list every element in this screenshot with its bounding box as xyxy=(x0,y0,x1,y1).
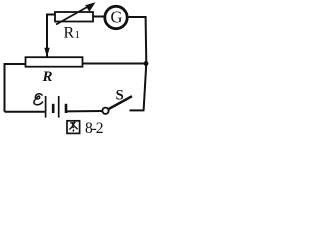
rheostat arrow through R1 xyxy=(56,6,89,25)
wire: G to top-right corner and down right side xyxy=(128,17,147,110)
junction node xyxy=(144,61,149,66)
svg-text:R: R xyxy=(42,69,53,85)
label EMF script-E xyxy=(34,94,43,105)
resistor R (potentiometer body) xyxy=(26,57,83,66)
wire: switch contact to bottom-right corner xyxy=(130,109,145,111)
svg-text:S: S xyxy=(116,87,124,103)
svg-text:G: G xyxy=(111,7,123,26)
wire: R1 right lead to G xyxy=(93,16,104,18)
switch lever xyxy=(108,96,132,109)
galvanometer G xyxy=(105,6,127,28)
svg-text:8-2: 8-2 xyxy=(85,120,104,137)
wire: battery to switch xyxy=(67,110,103,112)
resistor R1 (rheostat body) xyxy=(55,12,93,22)
battery cell 1 short plate xyxy=(52,104,55,113)
battery cell 1 long plate xyxy=(45,96,47,118)
wire: R right lead to junction xyxy=(83,63,147,65)
caption character tu (figure) xyxy=(67,121,80,134)
battery cell 2 long plate xyxy=(58,96,60,118)
svg-text:R: R xyxy=(64,25,75,42)
wire: bottom-left to battery xyxy=(5,111,45,113)
wire: left lead of R with left corner down xyxy=(5,64,26,112)
switch S pivot xyxy=(102,108,108,114)
wire: top-left corner to R1 left lead xyxy=(47,15,56,58)
svg-text:1: 1 xyxy=(75,29,81,41)
battery cell 2 short plate xyxy=(65,104,68,113)
slider arrowhead onto resistor R xyxy=(44,48,49,57)
